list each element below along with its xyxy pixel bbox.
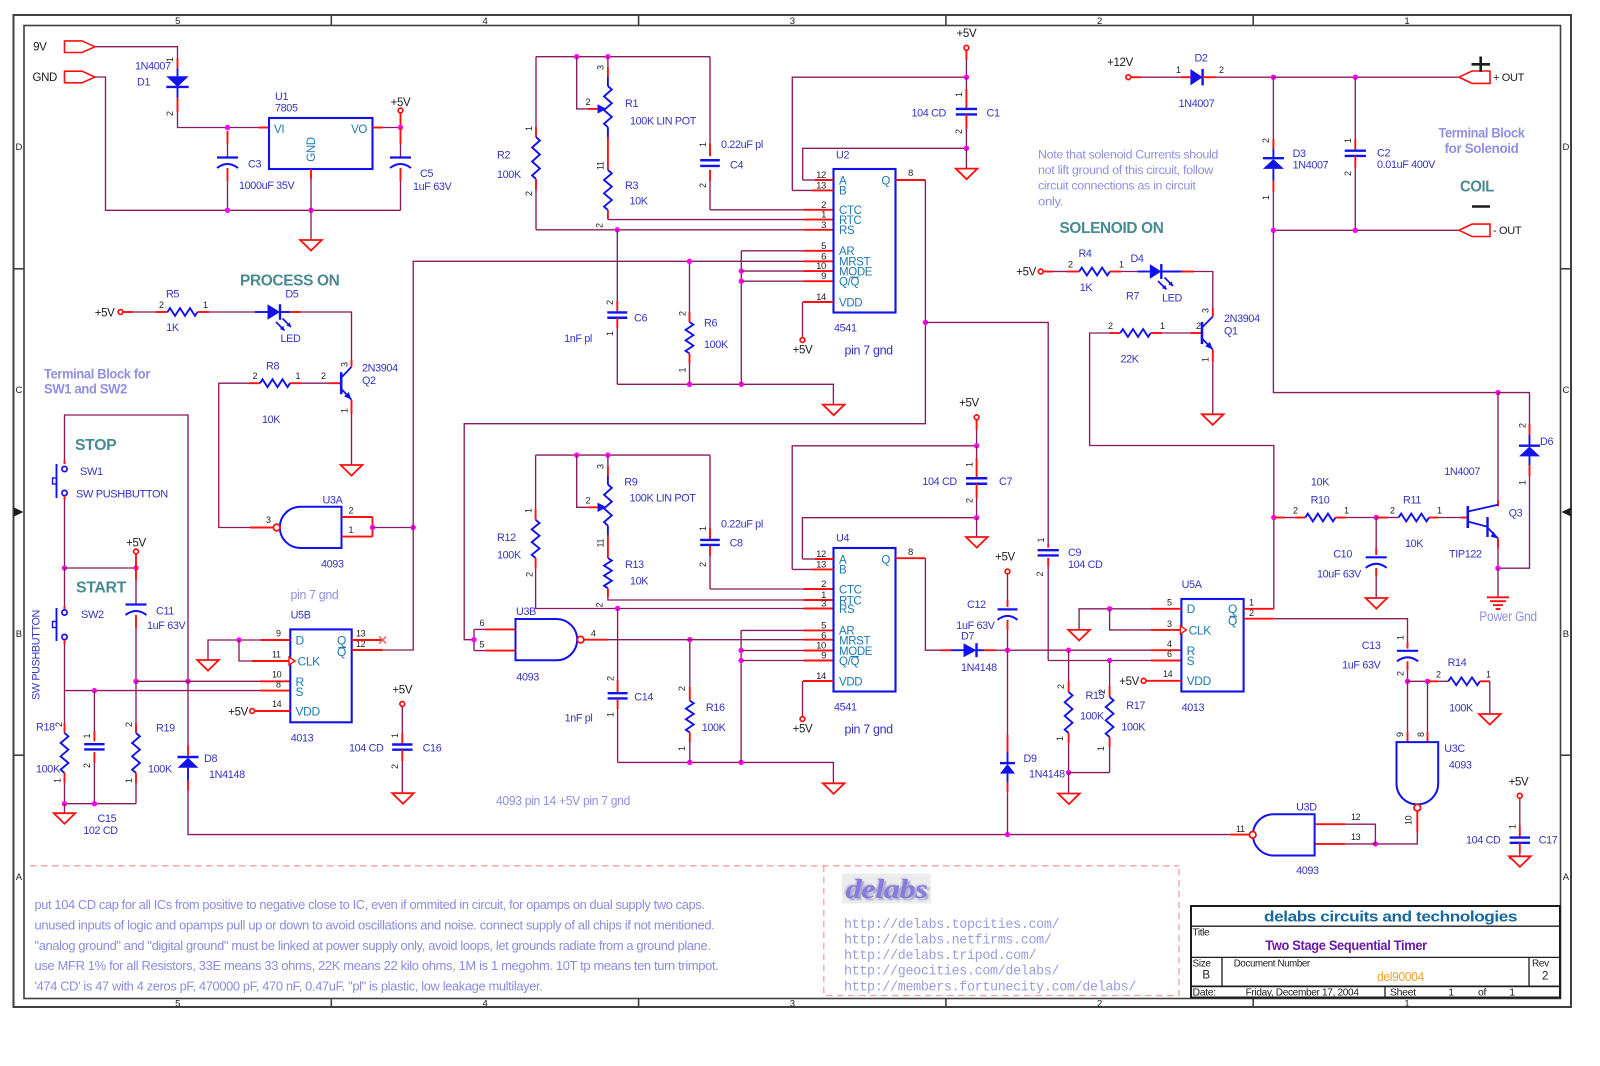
gate U3A 4093 (280, 507, 342, 548)
svg-text:100K: 100K (36, 764, 61, 776)
power +5V at C11 (134, 549, 139, 554)
svg-text:C10: C10 (1333, 549, 1352, 561)
svg-text:10uF 63V: 10uF 63V (1317, 568, 1362, 580)
svg-text:1nF pl: 1nF pl (564, 333, 592, 345)
gate U3B 4093 (516, 619, 578, 660)
svg-text:2: 2 (1390, 506, 1395, 516)
svg-text:2: 2 (1395, 671, 1405, 676)
svg-text:2: 2 (54, 722, 64, 727)
wire D9 to U3D rail (1007, 792, 1009, 834)
svg-text:C7: C7 (999, 476, 1012, 488)
power +5V at U4 VDD (800, 717, 805, 722)
svg-text:1: 1 (1261, 195, 1271, 200)
svg-text:10K: 10K (630, 576, 649, 588)
svg-text:104 CD: 104 CD (1466, 835, 1501, 847)
node AR/MODE column bottom (739, 382, 744, 387)
timer U2 4541 (834, 169, 896, 313)
wire U4 B to +5V rail (812, 568, 834, 570)
svg-text:C11: C11 (156, 606, 174, 618)
node U4 MODE branch (738, 648, 743, 653)
svg-text:14: 14 (1163, 669, 1173, 679)
wire U5B R line (136, 680, 260, 682)
node C10/R11 (1374, 515, 1379, 520)
svg-text:100K: 100K (702, 722, 727, 734)
node R1 pin3 on rail (605, 54, 610, 59)
ground at U5A D (1068, 630, 1090, 641)
svg-text:C4: C4 (730, 160, 743, 172)
wire C13 node to R14 (1408, 680, 1428, 682)
svg-text:10K: 10K (630, 196, 649, 208)
svg-text:6: 6 (1167, 649, 1172, 659)
svg-text:8: 8 (908, 547, 913, 558)
svg-text:2: 2 (586, 97, 591, 107)
wire timer2 ground rail (618, 762, 834, 783)
svg-text:http://delabs.topcities.com/: http://delabs.topcities.com/ (844, 918, 1060, 933)
svg-text:1: 1 (1119, 260, 1124, 270)
svg-text:14: 14 (272, 699, 282, 709)
sheet centre arrow left (14, 508, 24, 517)
svg-text:D: D (296, 633, 305, 647)
svg-text:3: 3 (821, 220, 826, 231)
switch SW2 pushbutton (64, 568, 66, 606)
title block column lines (1221, 957, 1223, 986)
svg-text:2: 2 (1035, 572, 1045, 577)
svg-text:2: 2 (524, 572, 534, 577)
svg-text:1: 1 (349, 525, 354, 535)
svg-text:VI: VI (274, 124, 284, 136)
svg-text:C9: C9 (1068, 547, 1081, 559)
node junction C3/gnd rail (225, 208, 230, 213)
svg-text:not lift ground of this circui: not lift ground of this circuit, follow (1038, 163, 1213, 177)
transistor Q3 TIP122 darlington (1467, 506, 1470, 528)
svg-text:1: 1 (1448, 986, 1454, 998)
wire U2 VDD to +5V (803, 301, 834, 303)
resistor R8 10K (249, 382, 260, 384)
svg-text:RS: RS (839, 604, 855, 616)
wire U5B Qbar up to U2 MRST (413, 261, 689, 527)
wire C9 to U5A S line (1048, 660, 1109, 662)
wire 9V to D1 (95, 47, 178, 58)
svg-text:2: 2 (586, 495, 591, 505)
node Q3 collector branch (1495, 390, 1500, 395)
node C11/R19/R-line (133, 679, 138, 684)
svg-text:1: 1 (52, 778, 62, 783)
svg-text:1: 1 (1176, 65, 1181, 75)
svg-text:1: 1 (605, 712, 615, 717)
ground for timer1 rail (823, 405, 845, 416)
svg-text:100K LIN POT: 100K LIN POT (630, 492, 697, 504)
wire Q3 emitter down (1497, 539, 1499, 549)
svg-text:2: 2 (954, 129, 964, 134)
svg-text:1: 1 (1036, 538, 1046, 543)
wire U3C input 8 (1427, 681, 1429, 732)
delabs logo (842, 874, 931, 904)
svg-text:SW2: SW2 (81, 609, 104, 621)
svg-text:pin 7 gnd: pin 7 gnd (291, 588, 339, 602)
svg-text:11: 11 (272, 650, 281, 660)
svg-text:R16: R16 (706, 702, 725, 714)
wire U1 GND pin down (310, 169, 312, 179)
potentiometer R9 100K LIN POT (607, 455, 609, 466)
svg-text:Friday, December 17, 2004: Friday, December 17, 2004 (1246, 986, 1359, 998)
svg-text:1: 1 (1249, 597, 1254, 607)
flip-flop U5A 4013 (1181, 599, 1243, 692)
svg-text:STOP: STOP (75, 437, 117, 454)
svg-text:4093 pin 14 +5V pin 7 gnd: 4093 pin 14 +5V pin 7 gnd (496, 794, 630, 808)
svg-text:3: 3 (790, 999, 795, 1010)
wire U2 Q/Q line (741, 280, 803, 282)
svg-text:100K: 100K (1121, 722, 1146, 734)
svg-text:1: 1 (677, 368, 687, 373)
svg-text:4: 4 (483, 999, 488, 1010)
svg-text:PROCESS ON: PROCESS ON (240, 273, 340, 290)
svg-text:pin 7 gnd: pin 7 gnd (845, 343, 894, 357)
wire U5B Qbar to MRST line (352, 649, 383, 651)
svg-text:9: 9 (1395, 732, 1405, 737)
wire R14 to ground (1489, 681, 1491, 714)
capacitor C4 0.22uF pl (709, 57, 711, 144)
svg-text:'474 CD' is 47 with 4 zeros pF: '474 CD' is 47 with 4 zeros pF, 470000 p… (35, 980, 543, 994)
svg-text:1: 1 (524, 126, 534, 131)
svg-text:3: 3 (790, 16, 795, 27)
svg-text:1N4007: 1N4007 (1179, 98, 1215, 110)
wire U3C output 10 (1416, 811, 1418, 833)
wire U5A Q up to R10/R7 node (1244, 608, 1274, 610)
node Q3 emitter/D6 (1495, 566, 1500, 571)
svg-text:11: 11 (596, 161, 606, 170)
border column ticks top (330, 15, 332, 26)
node U3A/U5B-Q feedback (411, 525, 416, 530)
svg-text:100K: 100K (497, 169, 522, 181)
svg-text:100K: 100K (1449, 702, 1474, 714)
wire R7 to U5A Q node (1090, 333, 1274, 518)
svg-text:D5: D5 (285, 288, 298, 300)
svg-text:put 104 CD cap for all ICs fro: put 104 CD cap for all ICs from positive… (35, 898, 705, 912)
svg-text:1: 1 (1517, 480, 1527, 485)
resistor R6 100K (689, 261, 691, 312)
svg-text:R5: R5 (166, 288, 179, 300)
resistor R16 100K (689, 640, 691, 687)
capacitor C15 102 CD (93, 691, 95, 731)
svg-text:1: 1 (124, 778, 134, 783)
svg-text:B: B (1202, 970, 1210, 982)
svg-text:2: 2 (677, 686, 687, 691)
svg-text:Q2: Q2 (362, 375, 376, 387)
sheet centre arrow right (1562, 508, 1572, 517)
wire U2 A to gnd rail (815, 179, 834, 181)
wire bottom rail of switch block (65, 803, 137, 805)
node R9 pin3 on rail (605, 452, 610, 457)
svg-text:5: 5 (175, 16, 180, 27)
connector +OUT (1459, 71, 1490, 83)
svg-text:Date:: Date: (1193, 986, 1216, 998)
svg-text:VO: VO (351, 124, 367, 136)
connector GND input (65, 71, 96, 83)
capacitor C11 1uF 63V (135, 568, 137, 580)
resistor R14 100K (1428, 680, 1439, 682)
svg-text:100K: 100K (148, 764, 173, 776)
svg-text:2: 2 (524, 191, 534, 196)
title block row lines (1191, 925, 1560, 927)
svg-text:C15: C15 (98, 813, 117, 825)
wire Q3 collector (1497, 393, 1499, 500)
svg-text:unused inputs of logic and opa: unused inputs of logic and opamps pull u… (35, 918, 715, 932)
svg-text:CLK: CLK (1189, 624, 1212, 638)
ground below C1 (965, 148, 967, 168)
ground below C7 (976, 518, 978, 537)
capacitor C8 0.22uF pl (709, 455, 711, 528)
wire D4 to Q1 collector (1194, 272, 1213, 309)
svg-text:R17: R17 (1126, 700, 1145, 712)
svg-text:4: 4 (1167, 639, 1172, 649)
wire U4 AR line (740, 630, 742, 762)
svg-text:4093: 4093 (321, 559, 344, 571)
node junction VO/C5 (398, 125, 403, 130)
ground below C17 (1509, 856, 1531, 867)
wire -OUT line (1273, 229, 1355, 231)
svg-text:+5V: +5V (793, 345, 813, 357)
wire U4 Q/Q line (741, 660, 803, 662)
wire D1 to U1 VI (178, 112, 228, 128)
node R16 top on U3B output line (687, 637, 692, 642)
svg-text:13: 13 (1351, 832, 1361, 842)
svg-text:1: 1 (964, 462, 974, 467)
node U5A D/CLK tie (1107, 606, 1112, 611)
svg-text:A: A (16, 872, 23, 883)
svg-text:2: 2 (605, 676, 615, 681)
svg-text:- OUT: - OUT (1493, 225, 1522, 237)
switch SW1 pushbutton (64, 460, 66, 464)
svg-text:1: 1 (698, 526, 708, 531)
svg-text:1nF pl: 1nF pl (565, 712, 593, 724)
transistor Q1 2N3904 (1201, 322, 1204, 344)
svg-text:Power Gnd: Power Gnd (1479, 609, 1537, 624)
svg-text:"analog ground" and "digital g: "analog ground" and "digital ground" mus… (35, 939, 711, 953)
svg-text:1N4007: 1N4007 (1444, 466, 1480, 478)
svg-text:R13: R13 (625, 559, 644, 571)
svg-text:Size: Size (1193, 959, 1212, 970)
title block frame (1191, 906, 1560, 998)
svg-text:1N4148: 1N4148 (1029, 769, 1065, 781)
svg-text:2N3904: 2N3904 (362, 363, 398, 375)
svg-text:1: 1 (1437, 506, 1442, 516)
svg-text:use MFR 1% for all Resistors,: use MFR 1% for all Resistors, 33E means … (35, 959, 719, 973)
svg-text:1: 1 (1096, 746, 1106, 751)
svg-text:0.22uF pl: 0.22uF pl (721, 518, 763, 530)
svg-text:1uF 63V: 1uF 63V (1342, 659, 1382, 671)
svg-text:6: 6 (480, 618, 485, 628)
svg-text:1000uF 35V: 1000uF 35V (239, 180, 295, 192)
wire C8 to U4 CTC (710, 588, 804, 590)
svg-text:2: 2 (124, 722, 134, 727)
svg-text:GND: GND (32, 72, 57, 84)
svg-text:4093: 4093 (1296, 865, 1319, 877)
wire R13 to U4 RTC (608, 597, 804, 600)
node C2 bottom (1353, 228, 1358, 233)
svg-text:1N4148: 1N4148 (961, 662, 997, 674)
wire U4 VDD to +5V (803, 680, 834, 682)
svg-text:102 CD: 102 CD (83, 825, 118, 837)
resistor R19 100K (135, 681, 137, 723)
svg-text:2: 2 (595, 223, 605, 228)
svg-text:0.01uF 400V: 0.01uF 400V (1377, 159, 1436, 171)
svg-text:1: 1 (1344, 506, 1349, 516)
svg-text:2: 2 (1343, 171, 1353, 176)
svg-text:1: 1 (390, 733, 400, 738)
node U3C pin8 branch (1425, 679, 1430, 684)
svg-text:+5V: +5V (1509, 777, 1529, 789)
wire U5B D to ground (261, 639, 291, 641)
svg-text:1: 1 (605, 331, 615, 336)
node S/R17 branch (1107, 658, 1112, 663)
svg-text:2: 2 (1542, 971, 1548, 983)
wire R9 to R13 (607, 526, 609, 535)
led D4 (1121, 271, 1137, 273)
svg-text:2: 2 (698, 562, 708, 567)
svg-text:2: 2 (82, 763, 92, 768)
wire U4 A to gnd rail (815, 558, 834, 560)
svg-text:U5B: U5B (291, 609, 311, 621)
wire R11 to Q3 base (1438, 517, 1461, 519)
gate U3C 4093 (1397, 742, 1439, 804)
svg-text:8: 8 (1416, 732, 1426, 737)
wire timer2 top rail (536, 454, 710, 456)
wire U5A D to ground (1151, 608, 1181, 610)
svg-text:1: 1 (296, 371, 301, 381)
svg-text:5: 5 (1167, 597, 1172, 607)
node U3B inputs (471, 637, 476, 642)
svg-text:4093: 4093 (516, 671, 539, 683)
svg-text:U5A: U5A (1182, 579, 1203, 591)
node R1 wiper loop on rail (574, 54, 579, 59)
svg-text:U1: U1 (275, 91, 288, 103)
svg-text:VDD: VDD (1187, 674, 1212, 688)
svg-text:Title: Title (1193, 928, 1211, 939)
flip-flop U5B 4013 (290, 629, 351, 722)
svg-text:+5V: +5V (957, 28, 977, 40)
svg-text:R19: R19 (156, 722, 175, 734)
node R6 bottom (687, 382, 692, 387)
node C12/D9 on R line (1005, 648, 1010, 653)
diode D8 1N4148 (187, 681, 189, 745)
svg-text:R10: R10 (1311, 495, 1330, 507)
resistor R7 22K (1110, 332, 1121, 334)
svg-text:D: D (15, 142, 22, 153)
svg-text:1N4007: 1N4007 (135, 61, 171, 73)
svg-text:8: 8 (908, 168, 913, 179)
svg-text:Two Stage Sequential Timer: Two Stage Sequential Timer (1265, 937, 1427, 953)
gate U3D 4093 (1253, 814, 1315, 855)
svg-text:R8: R8 (266, 361, 279, 373)
svg-text:C3: C3 (248, 159, 261, 171)
svg-text:R9: R9 (624, 476, 637, 488)
no-connect U5B Q pin13 (352, 639, 383, 641)
svg-text:C5: C5 (420, 168, 433, 180)
wire emitter to power ground (1497, 568, 1499, 597)
wire U3A input pins 2,1 tie (342, 516, 373, 518)
svg-text:VDD: VDD (839, 676, 862, 688)
node U4 AR/MODE column bottom (738, 760, 743, 765)
svg-text:2: 2 (1097, 16, 1102, 27)
svg-text:+ OUT: + OUT (1493, 72, 1525, 84)
svg-text:VDD: VDD (839, 297, 862, 309)
wire R15/R17 bottom tie (1069, 772, 1110, 774)
wire U3B inputs tie (485, 628, 516, 630)
wire U5B S line (65, 690, 261, 692)
svg-text:1: 1 (1404, 999, 1409, 1010)
svg-text:4013: 4013 (291, 732, 314, 744)
svg-text:2: 2 (159, 300, 164, 310)
node D9 column / U3D rail (1005, 832, 1010, 837)
svg-text:for Solenoid: for Solenoid (1445, 141, 1519, 156)
svg-text:START: START (76, 580, 127, 597)
svg-text:Q1: Q1 (1224, 326, 1238, 338)
resistor R12 100K (535, 455, 537, 509)
svg-text:3: 3 (339, 362, 349, 367)
svg-text:3: 3 (596, 65, 606, 70)
resistor R15 100K (1068, 650, 1070, 681)
ground for timer2 rail (823, 783, 845, 794)
potentiometer R1 100K LIN POT (607, 57, 609, 67)
capacitor C3 1000uF 35V (227, 131, 229, 144)
svg-text:Q/Q: Q/Q (839, 656, 859, 668)
wire R8 loop to U3A output (219, 383, 250, 527)
svg-text:22K: 22K (1121, 354, 1140, 366)
wire U2 B to +5V rail (812, 189, 834, 191)
ground below Q1 (1202, 414, 1224, 425)
svg-text:RS: RS (839, 225, 855, 237)
connector -OUT (1459, 224, 1490, 236)
svg-text:2: 2 (1097, 999, 1102, 1010)
svg-text:U3C: U3C (1444, 743, 1465, 755)
node R16 bottom (687, 760, 692, 765)
svg-text:5: 5 (480, 639, 485, 649)
wire to +OUT (1273, 76, 1355, 78)
node R9 wiper loop on rail (574, 452, 579, 457)
svg-text:10K: 10K (262, 414, 281, 426)
svg-text:1K: 1K (166, 322, 180, 334)
svg-text:4: 4 (483, 16, 488, 27)
wire U2 MODE line (741, 270, 803, 272)
svg-text:4093: 4093 (1449, 759, 1472, 771)
resistor R11 10K (1376, 517, 1388, 519)
wire U3D pin13 tie (1345, 843, 1375, 845)
svg-text:R6: R6 (704, 317, 717, 329)
svg-text:TIP122: TIP122 (1449, 548, 1482, 560)
svg-text:R18: R18 (36, 721, 55, 733)
led D5 (209, 311, 255, 313)
node D3 bottom (1271, 228, 1276, 233)
svg-text:4013: 4013 (1182, 702, 1205, 714)
svg-text:2: 2 (165, 111, 175, 116)
svg-text:2: 2 (964, 498, 974, 503)
svg-text:9V: 9V (33, 42, 47, 54)
border row ticks left (14, 268, 25, 270)
svg-text:C13: C13 (1362, 640, 1381, 652)
svg-text:C16: C16 (423, 742, 442, 754)
node C6 top on RS line (615, 227, 620, 232)
wire R2/RS line (536, 229, 617, 231)
svg-text:R14: R14 (1448, 657, 1467, 669)
svg-text:2: 2 (698, 183, 708, 188)
svg-text:2: 2 (349, 506, 354, 516)
wire timer1 top rail (535, 190, 537, 230)
wire U5B CLK tie (239, 640, 252, 661)
resistor R17 100K (1109, 661, 1111, 687)
svg-text:3: 3 (1201, 308, 1211, 313)
ground below C16 (392, 793, 414, 804)
svg-text:Sheet: Sheet (1390, 986, 1416, 998)
